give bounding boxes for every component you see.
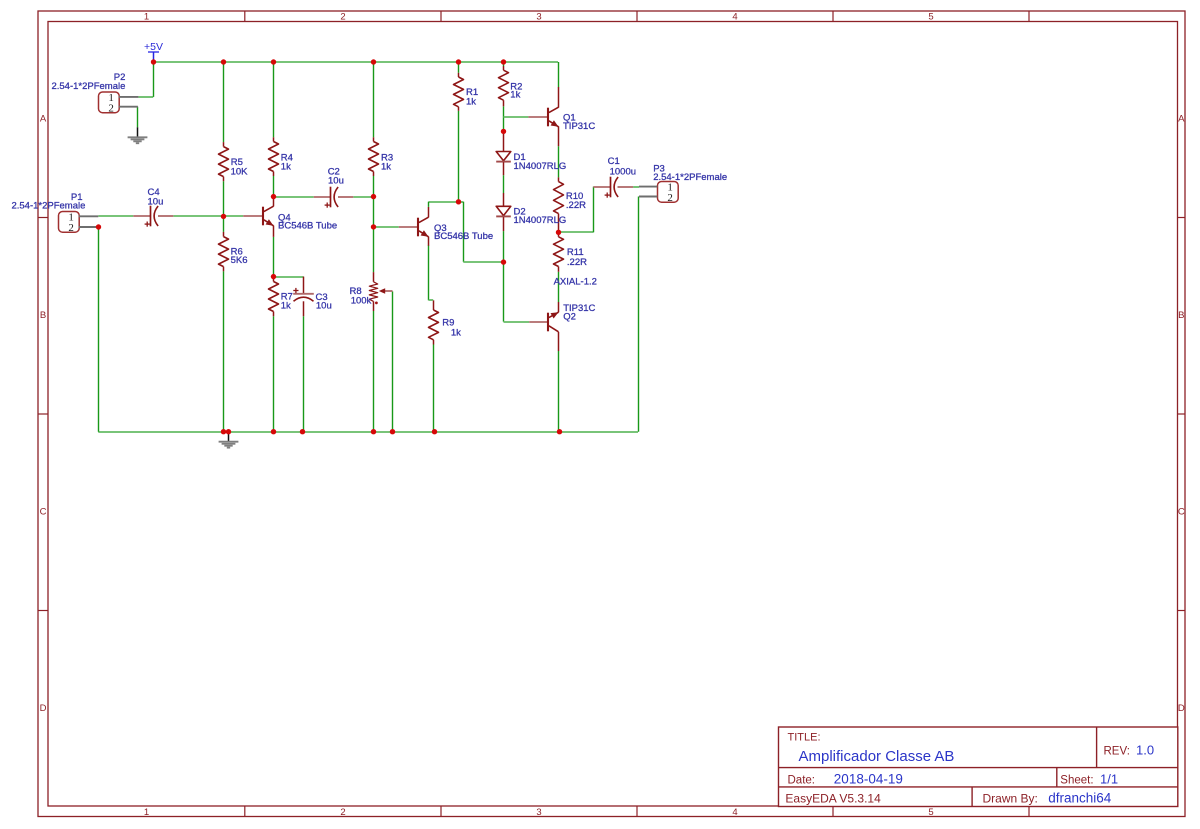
transistor Q1 xyxy=(528,116,547,118)
wire Q1 emitter to R10 xyxy=(558,146,560,177)
wire R1 node jog to D2 node xyxy=(458,201,463,203)
svg-text:1k: 1k xyxy=(466,97,476,108)
wire Q2 collector to ground rail xyxy=(558,351,560,432)
wire P2 pin1 to +5V xyxy=(138,96,153,98)
svg-text:D: D xyxy=(1178,703,1185,714)
svg-text:10K: 10K xyxy=(231,166,249,177)
wire R11 to Q2 emitter xyxy=(558,272,560,302)
wire R8 wiper return xyxy=(392,291,394,431)
svg-text:C: C xyxy=(40,507,47,518)
svg-text:AXIAL-1.2: AXIAL-1.2 xyxy=(554,276,597,287)
svg-text:2: 2 xyxy=(340,807,345,818)
connector P3 xyxy=(658,182,679,203)
svg-text:2: 2 xyxy=(340,12,345,23)
svg-text:1k: 1k xyxy=(451,327,461,338)
svg-text:Sheet:: Sheet: xyxy=(1060,774,1093,786)
junction dot C2/R3/R8 node xyxy=(371,194,376,199)
wire Q3 emitter jog to R9 xyxy=(428,246,430,301)
resistor R10 xyxy=(558,177,560,181)
wire R4 bottom to node xyxy=(273,176,275,197)
svg-text:EasyEDA V5.3.14: EasyEDA V5.3.14 xyxy=(785,792,881,806)
svg-text:BC546B Tube: BC546B Tube xyxy=(278,220,337,231)
svg-text:3: 3 xyxy=(536,12,541,23)
wire R3 column top xyxy=(373,62,375,137)
junction dot R4/C2/Q4 node xyxy=(271,194,276,199)
resistor R9 xyxy=(433,300,435,310)
svg-text:Drawn By:: Drawn By: xyxy=(983,792,1038,806)
svg-text:10u: 10u xyxy=(316,301,332,312)
svg-text:Date:: Date: xyxy=(788,774,816,786)
svg-text:2: 2 xyxy=(667,192,673,204)
svg-text:1/1: 1/1 xyxy=(1100,771,1118,786)
junction dot Q3 base node xyxy=(371,224,376,229)
junction dots ground rail xyxy=(221,429,226,434)
potentiometer R8 xyxy=(373,272,375,282)
resistor R6 xyxy=(223,232,225,237)
resistor R4 xyxy=(273,137,275,141)
svg-text:.22R: .22R xyxy=(567,257,587,268)
svg-text:1000u: 1000u xyxy=(610,166,636,177)
wire Q3 collector to R1 node xyxy=(429,201,459,203)
wire R4 node to C2 xyxy=(273,196,313,198)
wire R6 top xyxy=(223,216,225,232)
wire R5 column top xyxy=(223,62,225,142)
wire D2 node down to Q2 base xyxy=(503,262,505,322)
wire C4 to Q4 base xyxy=(173,215,243,217)
title block xyxy=(779,727,1178,807)
svg-text:B: B xyxy=(1178,310,1184,321)
svg-text:2.54-1*2PFemale: 2.54-1*2PFemale xyxy=(11,200,85,211)
svg-text:1N4007RLG: 1N4007RLG xyxy=(514,161,567,172)
svg-text:2: 2 xyxy=(108,102,114,114)
svg-text:4: 4 xyxy=(732,807,737,818)
wire R1 column top xyxy=(458,62,460,73)
svg-text:5K6: 5K6 xyxy=(231,255,248,266)
svg-text:2: 2 xyxy=(68,222,74,234)
svg-text:1.0: 1.0 xyxy=(1136,743,1154,758)
svg-text:10u: 10u xyxy=(148,196,164,207)
wire Q2 base xyxy=(504,321,530,323)
svg-text:A: A xyxy=(40,114,47,125)
connector P1 xyxy=(59,212,80,233)
wire Q3 base xyxy=(374,226,399,228)
wire top rail drop to Q1 collector xyxy=(558,62,560,87)
wire ground rail xyxy=(98,431,638,433)
svg-text:D: D xyxy=(40,703,47,714)
wire R8 bottom to ground rail xyxy=(373,311,375,432)
svg-text:1k: 1k xyxy=(281,301,291,312)
ground symbol P2 xyxy=(137,127,139,137)
+5V power flag xyxy=(148,52,159,62)
svg-text:5: 5 xyxy=(928,807,933,818)
svg-text:Amplificador Classe AB: Amplificador Classe AB xyxy=(799,748,955,765)
svg-text:dfranchi64: dfranchi64 xyxy=(1048,791,1112,806)
junction dot D1 top xyxy=(501,129,506,134)
svg-text:A: A xyxy=(1178,114,1185,125)
svg-text:3: 3 xyxy=(536,807,541,818)
svg-text:100k: 100k xyxy=(351,296,372,307)
svg-text:BC546B Tube: BC546B Tube xyxy=(434,231,493,242)
ground symbol main rail xyxy=(228,432,230,442)
junction dot D2 bottom node xyxy=(501,259,506,264)
svg-text:+5V: +5V xyxy=(144,41,163,53)
wire R1 bottom xyxy=(458,111,460,202)
wire +5V top rail xyxy=(153,61,558,63)
resistor R2 xyxy=(503,66,505,70)
wire output node to C1 xyxy=(559,231,594,233)
capacitor C3 xyxy=(303,277,305,294)
wire P1 pin2 down to ground rail xyxy=(98,227,100,432)
wire P2 pin2 down to ground xyxy=(137,107,139,128)
capacitor C2 xyxy=(314,196,331,198)
junction dot output node xyxy=(556,230,561,235)
connector P2 xyxy=(99,92,120,113)
svg-text:1N4007RLG: 1N4007RLG xyxy=(514,215,567,226)
transistor Q4 xyxy=(243,215,262,217)
wire R4 column top xyxy=(273,62,275,137)
svg-text:5: 5 xyxy=(928,12,933,23)
svg-text:2.54-1*2PFemale: 2.54-1*2PFemale xyxy=(653,172,727,183)
resistor R11 xyxy=(558,232,560,237)
capacitor C4 xyxy=(133,215,150,217)
wire R2 bottom to Q1 base tap xyxy=(503,106,505,131)
svg-text:Q2: Q2 xyxy=(563,312,576,323)
resistor R3 xyxy=(373,137,375,141)
transistor Q2 xyxy=(529,321,547,323)
wire C1 to P3 pin1 xyxy=(633,186,639,188)
svg-text:10u: 10u xyxy=(328,176,344,187)
svg-text:2.54-1*2PFemale: 2.54-1*2PFemale xyxy=(51,81,125,92)
wire R3 bottom to C2 node xyxy=(373,176,375,197)
svg-text:1k: 1k xyxy=(281,161,291,172)
junction dot input node xyxy=(221,214,226,219)
wire C3 bottom to ground rail xyxy=(303,316,305,432)
wire D1-D2 link xyxy=(503,175,505,193)
svg-text:4: 4 xyxy=(732,12,737,23)
wire Q3 base node down to R8 xyxy=(373,227,375,272)
svg-text:1k: 1k xyxy=(510,90,520,101)
svg-text:C: C xyxy=(1178,507,1185,518)
junction dot P1 pin2 xyxy=(96,224,101,229)
junction dot Q4 emitter node xyxy=(271,274,276,279)
diode D2 xyxy=(503,193,505,206)
wire R7 bottom to ground rail xyxy=(273,316,275,432)
diode D1 xyxy=(503,131,505,151)
svg-text:1k: 1k xyxy=(381,161,391,172)
wire R5 to input node xyxy=(223,181,225,216)
svg-text:1: 1 xyxy=(144,12,149,23)
transistor Q3 xyxy=(399,226,417,228)
wire Q4 emitter down xyxy=(273,237,275,277)
wire C2 node down to Q3 base node xyxy=(373,197,375,227)
junction dots top rail xyxy=(151,59,156,64)
resistor R5 xyxy=(223,142,225,147)
wire P1 pin1 to C4 xyxy=(98,215,133,217)
svg-text:TITLE:: TITLE: xyxy=(788,732,821,744)
wire R2 top xyxy=(503,62,505,66)
capacitor C1 xyxy=(593,186,611,188)
wire R9 bottom to ground rail xyxy=(433,345,435,432)
svg-text:B: B xyxy=(40,310,46,321)
wire C2 to R3 node xyxy=(353,196,373,198)
wire Q1 base xyxy=(504,116,529,118)
svg-text:.22R: .22R xyxy=(566,200,586,211)
svg-text:TIP31C: TIP31C xyxy=(563,121,595,132)
svg-text:2018-04-19: 2018-04-19 xyxy=(834,771,903,786)
junction dot R1 bottom node xyxy=(456,199,461,204)
wire D2 bottom to node xyxy=(503,231,505,262)
svg-text:1: 1 xyxy=(144,807,149,818)
svg-text:REV:: REV: xyxy=(1104,746,1130,758)
resistor R1 xyxy=(458,73,460,77)
resistor R7 xyxy=(273,277,275,282)
wire R6 bottom to ground rail xyxy=(223,271,225,431)
wire node to C3 xyxy=(273,276,303,278)
wire P3 pin2 down to ground rail xyxy=(638,197,640,432)
